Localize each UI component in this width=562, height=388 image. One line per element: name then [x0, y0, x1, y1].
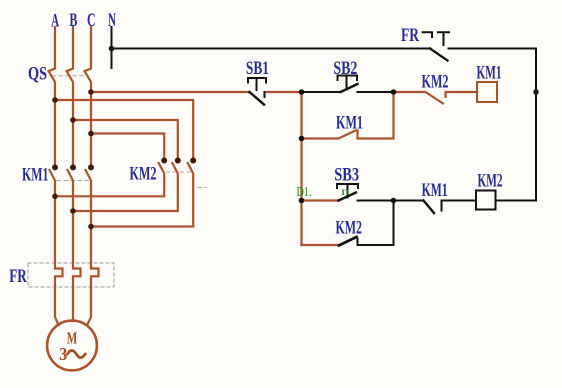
svg-text:SB1: SB1 [246, 58, 269, 79]
svg-text:D1.: D1. [297, 185, 312, 200]
svg-text:KM2: KM2 [335, 218, 362, 239]
svg-text:SB3: SB3 [334, 165, 359, 186]
svg-text:KM2: KM2 [478, 171, 503, 192]
svg-text:KM1: KM1 [22, 165, 49, 186]
svg-text:QS: QS [28, 64, 47, 85]
svg-text:KM2: KM2 [422, 72, 449, 93]
svg-text:N: N [108, 10, 116, 31]
svg-text:KM1: KM1 [336, 113, 363, 134]
svg-text:A: A [51, 11, 59, 32]
svg-text:B: B [69, 10, 77, 31]
svg-text:n: n [341, 184, 350, 198]
svg-text:KM1: KM1 [477, 62, 502, 83]
svg-text:C: C [87, 10, 96, 31]
svg-text:M: M [67, 329, 78, 348]
svg-text:SB2: SB2 [333, 58, 357, 79]
svg-text:FR: FR [401, 25, 419, 46]
svg-text:KM2: KM2 [130, 164, 157, 185]
svg-text:FR: FR [9, 266, 27, 287]
svg-text:KM1: KM1 [422, 180, 448, 201]
